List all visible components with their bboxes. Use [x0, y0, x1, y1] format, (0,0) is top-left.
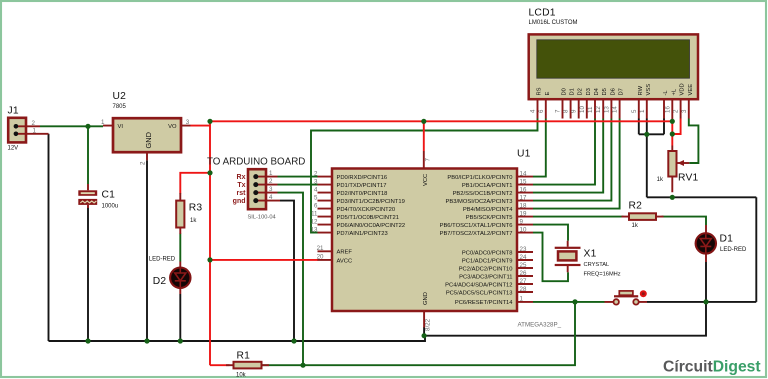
wire R2 to D1 anode	[662, 217, 707, 225]
svg-text:2: 2	[269, 178, 273, 185]
svg-text:16: 16	[520, 186, 527, 193]
svg-text:28: 28	[520, 286, 527, 293]
node D2 ground	[178, 338, 183, 343]
svg-text:rst: rst	[237, 190, 247, 197]
svg-text:18: 18	[520, 202, 527, 209]
svg-text:D0: D0	[562, 88, 568, 95]
connector SIL-100-04 (TO ARDUINO BOARD)	[207, 157, 305, 221]
wire LCD D4 to U1 pin15	[533, 119, 595, 185]
svg-text:1: 1	[101, 119, 105, 126]
svg-text:GND: GND	[423, 292, 429, 305]
svg-text:9: 9	[571, 109, 578, 113]
node reset/button	[572, 299, 577, 304]
wire +5V rail to R1	[210, 364, 230, 366]
wire R3 top to +5V rail	[180, 173, 210, 194]
svg-text:1: 1	[520, 295, 524, 302]
potentiometer RV1 1k	[657, 146, 699, 193]
svg-text:gnd: gnd	[233, 198, 246, 205]
svg-text:12: 12	[595, 106, 602, 113]
svg-text:D6: D6	[610, 88, 616, 95]
wire LCD D7 to U1 pin18	[533, 119, 620, 209]
pin stubs	[538, 99, 689, 119]
wire ground bus	[49, 302, 707, 341]
wire right ground drop	[755, 197, 757, 302]
wire +5V vertical rail	[209, 121, 211, 365]
svg-text:14: 14	[520, 170, 527, 177]
svg-text:PB6/TOSC1/XTAL1/PCINT6: PB6/TOSC1/XTAL1/PCINT6	[440, 223, 513, 229]
svg-text:U1: U1	[517, 149, 531, 160]
svg-text:D3: D3	[586, 88, 592, 95]
wire LCD VDD down	[672, 119, 680, 135]
node VDD/RV1	[670, 131, 675, 136]
svg-text:8: 8	[563, 109, 570, 113]
svg-text:LED-RED: LED-RED	[149, 256, 176, 262]
push button	[605, 290, 648, 304]
wire U1 pin9 to crystal top	[533, 225, 568, 241]
node SIL ground	[291, 338, 296, 343]
svg-text:PB0/ICP1/CLKO/PCINT0: PB0/ICP1/CLKO/PCINT0	[447, 175, 512, 181]
svg-text:24: 24	[520, 254, 527, 261]
svg-text:VSS: VSS	[646, 84, 652, 96]
LCD screen	[537, 40, 690, 78]
wire Rx to U1 pin2	[278, 176, 319, 178]
svg-text:D7: D7	[619, 88, 625, 95]
svg-text:D2: D2	[153, 276, 167, 287]
svg-text:16: 16	[664, 106, 671, 113]
svg-text:VI: VI	[118, 124, 124, 130]
node C1 ground	[85, 338, 90, 343]
svg-text:FREQ=16MHz: FREQ=16MHz	[584, 271, 621, 277]
svg-text:7805: 7805	[113, 104, 127, 110]
wire LCD -L down	[663, 119, 665, 135]
wire LCD E to U1 pin14	[533, 119, 546, 177]
svg-text:27: 27	[520, 278, 527, 285]
svg-text:2: 2	[32, 120, 36, 127]
wire RW/VSS/-L join	[639, 133, 664, 135]
svg-text:D1: D1	[570, 88, 576, 95]
svg-text:13: 13	[603, 106, 610, 113]
svg-text:10: 10	[579, 106, 586, 113]
svg-text:D4: D4	[594, 87, 600, 95]
wire U2 VO to +5V node	[191, 125, 211, 127]
node D1/button ground	[703, 299, 708, 304]
svg-text:R1: R1	[237, 351, 251, 362]
crystal X1	[555, 241, 621, 277]
svg-text:CírcuitDigest: CírcuitDigest	[663, 359, 761, 376]
resistor R3 1k	[176, 193, 202, 234]
LCD1 LM016L	[529, 7, 699, 119]
svg-text:AVCC: AVCC	[337, 258, 353, 264]
svg-text:23: 23	[520, 246, 527, 253]
svg-text:4: 4	[530, 109, 537, 113]
svg-text:11: 11	[587, 106, 594, 113]
svg-text:10: 10	[520, 226, 527, 233]
svg-text:3: 3	[269, 186, 273, 193]
svg-text:Rx: Rx	[237, 174, 246, 181]
svg-text:PD1/TXD/PCINT17: PD1/TXD/PCINT17	[337, 183, 387, 189]
svg-text:PD3/INT1/OC2B/PCINT19: PD3/INT1/OC2B/PCINT19	[337, 199, 405, 205]
svg-text:Tx: Tx	[237, 182, 245, 189]
wire D2 cathode to ground bus	[179, 294, 181, 341]
svg-text:C1: C1	[102, 190, 116, 201]
svg-text:4: 4	[314, 186, 318, 193]
wire +L to bus and RV1 top	[671, 119, 673, 146]
svg-text:9: 9	[520, 218, 524, 225]
svg-text:PC4/ADC4/SDA/PCINT12: PC4/ADC4/SDA/PCINT12	[445, 283, 512, 289]
wire U1 VCC to +5V bus	[423, 121, 425, 151]
svg-text:PC6/RESET/PCINT14: PC6/RESET/PCINT14	[455, 300, 513, 306]
svg-text:6: 6	[314, 202, 318, 209]
svg-text:1k: 1k	[632, 223, 639, 229]
svg-text:VO: VO	[168, 124, 177, 130]
wire ground line under RV1	[647, 196, 757, 198]
svg-text:X1: X1	[584, 249, 597, 260]
svg-text:PD7/AIN1/PCINT23: PD7/AIN1/PCINT23	[337, 231, 388, 237]
node U1 VCC	[421, 119, 426, 124]
svg-text:21: 21	[317, 245, 324, 252]
svg-text:ATMEGA328P_: ATMEGA328P_	[518, 322, 562, 329]
right pin stubs	[517, 177, 533, 302]
svg-text:7: 7	[425, 158, 432, 162]
svg-text:+L: +L	[671, 88, 677, 95]
svg-text:3: 3	[314, 178, 318, 185]
svg-text:7: 7	[555, 109, 562, 113]
svg-text:25: 25	[520, 262, 527, 269]
svg-text:RW: RW	[638, 85, 644, 95]
svg-text:VEE: VEE	[688, 84, 694, 96]
svg-text:12V: 12V	[8, 146, 19, 152]
left pin stubs	[318, 177, 333, 260]
node LCD +L	[670, 119, 675, 124]
svg-text:8/22: 8/22	[425, 318, 432, 331]
svg-text:19: 19	[520, 210, 527, 217]
node R3 top	[207, 170, 212, 175]
wire AVCC to +5V rail	[210, 259, 318, 261]
svg-text:1: 1	[639, 109, 646, 113]
top VCC stub / bottom GND stub	[423, 151, 425, 328]
svg-text:CRYSTAL: CRYSTAL	[584, 262, 610, 268]
wire LCD D5 to U1 pin16	[533, 119, 603, 193]
wire J1 pin1 to ground bus	[48, 134, 50, 341]
svg-text:4: 4	[269, 194, 273, 201]
wire VSS net down to RV1 ground line	[646, 134, 648, 197]
node VSS join	[644, 132, 649, 137]
svg-text:PC1/ADC1/PCINT9: PC1/ADC1/PCINT9	[462, 259, 513, 265]
svg-text:PD5/T1/OC0B/PCINT21: PD5/T1/OC0B/PCINT21	[337, 215, 400, 221]
wire LCD RS to U1 pin13	[311, 119, 538, 233]
svg-text:U2: U2	[113, 91, 127, 102]
svg-text:3: 3	[681, 109, 688, 113]
connector J1	[8, 106, 49, 152]
svg-text:PB4/MISO/PCINT4: PB4/MISO/PCINT4	[463, 207, 513, 213]
node J1/C1/U2	[85, 124, 90, 129]
svg-text:PC5/ADC5/SCL/PCINT13: PC5/ADC5/SCL/PCINT13	[446, 291, 513, 297]
wire LCD RW down	[638, 119, 640, 135]
wire D1 cathode down	[705, 262, 707, 302]
LED D2	[149, 256, 191, 294]
svg-text:10k: 10k	[236, 373, 247, 379]
wire reset horizontal to button / U1 pin1	[262, 302, 576, 365]
svg-text:5: 5	[314, 194, 318, 201]
svg-text:R2: R2	[629, 200, 643, 211]
wire U1 pin1 to button left	[533, 301, 605, 303]
rotated pin numbers	[530, 106, 688, 113]
svg-text:PB7/TOSC2/XTAL2/PCINT7: PB7/TOSC2/XTAL2/PCINT7	[440, 231, 513, 237]
svg-text:5: 5	[631, 109, 638, 113]
svg-text:11: 11	[311, 210, 318, 217]
rotated pin names	[537, 83, 694, 95]
wire R3 to D2 anode	[179, 234, 181, 262]
svg-text:PD6/AIN0/OC0A/PCINT22: PD6/AIN0/OC0A/PCINT22	[337, 223, 406, 229]
svg-text:E: E	[545, 92, 551, 96]
svg-text:2: 2	[673, 109, 680, 113]
node AVCC	[207, 257, 212, 262]
svg-text:1k: 1k	[657, 177, 664, 183]
CircuitDigest logo	[663, 359, 761, 376]
svg-text:RS: RS	[537, 87, 543, 95]
svg-text:PD0/RXD/PCINT16: PD0/RXD/PCINT16	[337, 175, 388, 181]
resistor R1 10k	[226, 351, 269, 379]
svg-text:PC0/ADC0/PCINT8: PC0/ADC0/PCINT8	[462, 251, 513, 257]
regulator U2 7805	[101, 91, 190, 165]
svg-text:GND: GND	[144, 132, 153, 148]
wire LCD VSS down	[646, 119, 648, 135]
svg-text:2: 2	[314, 170, 318, 177]
svg-text:PB3/MOSI/OC2A/PCINT3: PB3/MOSI/OC2A/PCINT3	[445, 199, 512, 205]
svg-text:RV1: RV1	[678, 173, 699, 184]
svg-text:PB1/OC1A/PCINT1: PB1/OC1A/PCINT1	[462, 183, 513, 189]
svg-text:17: 17	[520, 194, 527, 201]
MCU U1 ATMEGA328P	[311, 149, 562, 332]
node U2 ground	[144, 338, 149, 343]
svg-text:2: 2	[140, 161, 147, 165]
wire SIL gnd to ground bus	[280, 201, 294, 341]
wire U1 pin10 to crystal bottom	[533, 233, 568, 282]
svg-text:PD4/T0/XCK/PCINT20: PD4/T0/XCK/PCINT20	[337, 207, 396, 213]
wire +5V bus to LCD	[210, 120, 672, 122]
wire J1 pin2 to U2 VI	[40, 125, 103, 127]
svg-text:26: 26	[520, 270, 527, 277]
wire U1 pin19 to R2	[533, 216, 624, 218]
svg-text:D2: D2	[578, 88, 584, 95]
svg-text:PD2/INT0/PCINT18: PD2/INT0/PCINT18	[337, 191, 388, 197]
resistor R2 1k	[622, 200, 664, 229]
wire LCD VEE to RV1 wiper	[689, 119, 699, 164]
svg-text:1: 1	[33, 127, 37, 134]
svg-text:PC2/ADC2/PCINT10: PC2/ADC2/PCINT10	[459, 267, 513, 273]
svg-text:6: 6	[538, 109, 545, 113]
svg-text:15: 15	[520, 178, 527, 185]
svg-text:TO ARDUINO BOARD: TO ARDUINO BOARD	[207, 157, 305, 168]
wire Tx to U1 pin3	[278, 184, 319, 186]
svg-text:LCD1: LCD1	[529, 7, 556, 18]
node reset/R1	[300, 363, 305, 368]
svg-text:20: 20	[317, 254, 324, 261]
svg-text:PB5/SCK/PCINT5: PB5/SCK/PCINT5	[466, 215, 513, 221]
node +5V corner	[207, 119, 212, 124]
svg-text:VCC: VCC	[423, 174, 429, 186]
wire rst down to reset net	[278, 193, 304, 366]
wire LCD D6 to U1 pin17	[533, 119, 611, 201]
capacitor C1 1000u	[78, 184, 118, 209]
svg-text:-L: -L	[663, 90, 669, 96]
svg-text:AREF: AREF	[337, 250, 353, 256]
node U1 ground	[422, 333, 427, 338]
svg-text:PB2/SS/OC1B/PCINT2: PB2/SS/OC1B/PCINT2	[453, 191, 513, 197]
svg-text:D5: D5	[602, 88, 608, 95]
svg-text:13: 13	[311, 226, 318, 233]
svg-text:D1: D1	[720, 234, 734, 245]
svg-text:R3: R3	[189, 203, 203, 214]
wire C1 top branch	[87, 126, 89, 184]
svg-text:12: 12	[311, 218, 318, 225]
svg-text:1000u: 1000u	[102, 203, 119, 209]
svg-text:1: 1	[269, 170, 273, 177]
svg-text:3: 3	[186, 119, 190, 126]
wire C1 bottom to ground bus	[87, 208, 89, 342]
wire button right to ground	[647, 301, 756, 303]
svg-text:LED-RED: LED-RED	[720, 247, 747, 253]
svg-text:PC3/ADC3/PCINT11: PC3/ADC3/PCINT11	[459, 275, 512, 281]
svg-text:J1: J1	[8, 106, 19, 117]
svg-text:1k: 1k	[190, 218, 197, 224]
node RV1 bottom	[670, 195, 675, 200]
svg-text:SIL-100-04: SIL-100-04	[248, 215, 276, 221]
svg-text:LM016L CUSTOM: LM016L CUSTOM	[529, 20, 578, 26]
svg-text:VDD: VDD	[680, 83, 686, 95]
svg-text:14: 14	[612, 106, 619, 113]
LED D1	[696, 225, 747, 262]
wire U2 GND to ground bus	[146, 160, 148, 341]
wire U1 GND to ground bus	[423, 327, 425, 336]
